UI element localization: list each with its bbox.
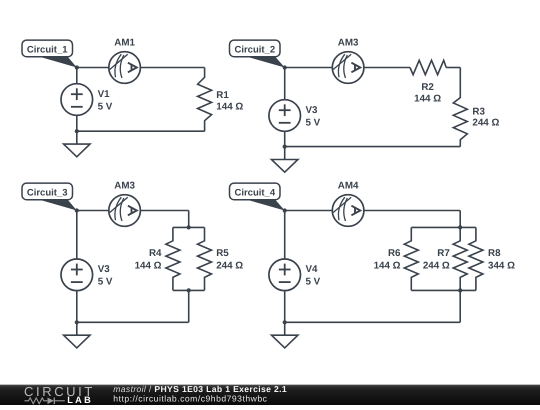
svg-text:144 Ω: 144 Ω: [216, 102, 243, 113]
ammeter AM3 circuit 3: [109, 195, 141, 227]
junction circuit 4 parallel top: [458, 225, 462, 229]
ammeter AM3 circuit 2: [332, 52, 364, 84]
wire bottom rail circuit 4: [285, 321, 461, 323]
node circuit 2 bottom: [283, 145, 287, 149]
svg-text:R6: R6: [388, 248, 401, 259]
junction circuit 4 parallel bottom: [458, 288, 462, 292]
svg-text:R8: R8: [488, 248, 501, 259]
svg-text:R2: R2: [421, 82, 434, 93]
resistor R6: [404, 227, 418, 290]
wire bottom rail circuit 3: [77, 321, 189, 323]
svg-text:344 Ω: 344 Ω: [488, 260, 515, 271]
svg-text:Circuit_1: Circuit_1: [27, 44, 68, 55]
svg-text:244 Ω: 244 Ω: [423, 260, 450, 271]
svg-text:5 V: 5 V: [306, 277, 321, 288]
node circuit 3 top: [75, 208, 79, 212]
junction circuit 3 parallel bottom: [187, 288, 191, 292]
resistor R4: [166, 227, 180, 290]
wire top rail circuit 3: [77, 210, 189, 212]
svg-text:Circuit_3: Circuit_3: [27, 187, 68, 198]
svg-text:5 V: 5 V: [98, 277, 113, 288]
ground circuit 1: [64, 131, 90, 157]
svg-text:http://circuitlab.com/c9hbd793: http://circuitlab.com/c9hbd793thwbc: [113, 393, 267, 403]
svg-text:R4: R4: [149, 248, 162, 259]
wire feed down circuit 4: [459, 211, 461, 228]
svg-text:244 Ω: 244 Ω: [216, 260, 243, 271]
svg-text:LAB: LAB: [67, 395, 93, 405]
label Circuit_3: [22, 183, 77, 210]
svg-text:144 Ω: 144 Ω: [414, 94, 441, 105]
svg-text:Circuit_4: Circuit_4: [234, 187, 275, 198]
svg-text:R3: R3: [472, 106, 485, 117]
svg-text:144 Ω: 144 Ω: [135, 260, 162, 271]
resistor R2: [410, 60, 446, 74]
svg-text:R1: R1: [216, 90, 229, 101]
node circuit 3 bottom: [75, 320, 79, 324]
CircuitLab logo squiggle: [25, 398, 48, 404]
voltage source V3 circuit 3: [61, 259, 93, 291]
footer bar: [0, 385, 540, 405]
label Circuit_4: [230, 183, 285, 210]
svg-text:V3: V3: [306, 105, 319, 116]
svg-text:AM3: AM3: [114, 180, 135, 191]
resistor R1: [198, 68, 212, 132]
ground circuit 3: [64, 322, 90, 348]
resistor R8: [469, 227, 483, 290]
ammeter AM1: [109, 52, 141, 84]
wire source stack circuit 1: [76, 68, 78, 132]
svg-text:5 V: 5 V: [306, 117, 321, 128]
node circuit 4 bottom: [283, 320, 287, 324]
label Circuit_1: [22, 40, 77, 67]
svg-text:244 Ω: 244 Ω: [472, 118, 499, 129]
ammeter AM4: [332, 195, 364, 227]
wire bottom rail circuit 2: [285, 146, 461, 148]
label Circuit_2: [230, 40, 285, 67]
wire parallel top bar circuit 3: [173, 226, 205, 228]
wire source stack circuit 3: [76, 211, 78, 323]
ground circuit 4: [272, 322, 298, 348]
svg-text:AM1: AM1: [114, 37, 135, 48]
wire top rail circuit 1: [77, 67, 205, 69]
svg-text:V1: V1: [98, 89, 111, 100]
svg-text:AM4: AM4: [338, 180, 359, 191]
resistor R3: [453, 68, 467, 147]
voltage source V3 circuit 2: [269, 100, 301, 132]
svg-text:V3: V3: [98, 264, 111, 275]
svg-text:Circuit_2: Circuit_2: [234, 44, 275, 55]
node circuit 1 bottom: [75, 129, 79, 133]
wire top rail circuit 4: [285, 210, 461, 212]
wire top rail circuit 2: [285, 67, 410, 69]
resistor R5: [198, 227, 212, 290]
svg-text:5 V: 5 V: [98, 101, 113, 112]
wire feed bottom circuit 4: [459, 290, 461, 322]
svg-text:144 Ω: 144 Ω: [374, 260, 401, 271]
svg-text:R5: R5: [216, 248, 229, 259]
wire source stack circuit 4: [284, 211, 286, 323]
resistor R7: [453, 227, 467, 290]
svg-text:R7: R7: [437, 248, 450, 259]
node circuit 2 top: [283, 65, 287, 69]
junction circuit 3 parallel top: [187, 225, 191, 229]
node circuit 1 top: [75, 65, 79, 69]
wire parallel top bar circuit 4: [411, 226, 476, 228]
wire source stack circuit 2: [284, 68, 286, 147]
wire feed bottom circuit 3: [188, 290, 190, 322]
voltage source V4: [269, 259, 301, 291]
wire parallel bottom bar circuit 3: [173, 289, 205, 291]
wire bottom rail circuit 1: [77, 130, 205, 132]
svg-text:V4: V4: [306, 264, 319, 275]
node circuit 4 top: [283, 208, 287, 212]
wire feed down circuit 3: [188, 211, 190, 228]
wire parallel bottom bar circuit 4: [411, 289, 476, 291]
svg-text:AM3: AM3: [338, 37, 359, 48]
voltage source V1: [61, 84, 93, 116]
ground circuit 2: [272, 147, 298, 173]
